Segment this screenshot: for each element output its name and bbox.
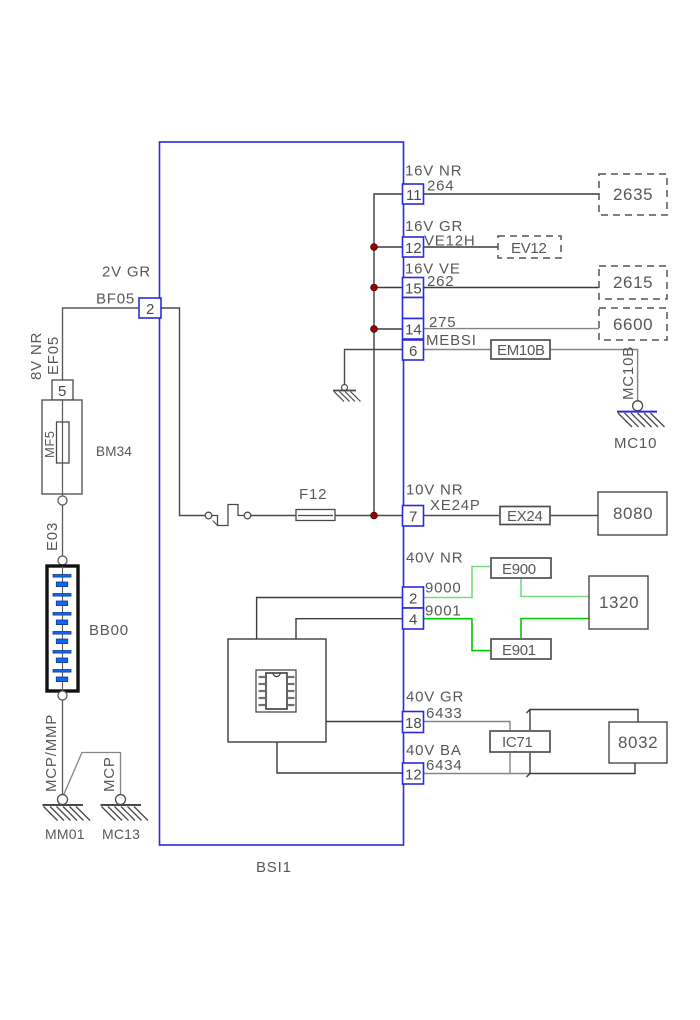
wire U1 to pin 2 — [257, 598, 403, 640]
fuse F12 — [296, 510, 335, 521]
svg-text:MEBSI: MEBSI — [426, 332, 477, 349]
wire U1 to pin 12 lower — [277, 742, 403, 773]
wire pin 6 to internal ground — [345, 350, 404, 385]
svg-text:275: 275 — [429, 314, 456, 331]
svg-text:MC10B: MC10B — [620, 346, 637, 400]
svg-text:264: 264 — [427, 178, 454, 195]
wire BF05 pin2 to BM34 — [63, 308, 140, 380]
ground MC13 — [101, 795, 149, 821]
fuse box BM34 — [42, 400, 82, 496]
svg-text:8032: 8032 — [618, 733, 658, 752]
svg-text:BB00: BB00 — [89, 622, 129, 639]
connector circle below BM34 — [58, 496, 67, 505]
component 8080 — [598, 492, 667, 535]
internal ground symbol — [333, 385, 361, 402]
ground MM01 — [43, 795, 91, 821]
svg-text:9000: 9000 — [425, 580, 462, 597]
pin 11 — [403, 184, 424, 204]
svg-text:2615: 2615 — [613, 273, 653, 292]
connector circle below BB00 — [58, 691, 67, 700]
svg-text:2: 2 — [146, 301, 154, 318]
processor module box U1 — [228, 639, 326, 742]
svg-text:1320: 1320 — [599, 593, 639, 612]
pin 14 — [403, 319, 424, 340]
wire 6434 pin12 lower — [424, 773, 531, 775]
svg-text:2635: 2635 — [613, 185, 653, 204]
svg-text:40V NR: 40V NR — [406, 550, 463, 567]
junction dot node pin15 — [371, 284, 378, 291]
wire switch to fuse F12 — [251, 515, 296, 517]
svg-text:5: 5 — [58, 383, 66, 400]
svg-text:E03: E03 — [44, 522, 61, 551]
wire MEBSI pin6 to EM10B and MC10 — [424, 350, 638, 401]
svg-text:10V NR: 10V NR — [406, 482, 463, 499]
wire trunk to pin 12 — [374, 246, 403, 248]
component EV12 dashed — [498, 236, 561, 258]
svg-text:MC13: MC13 — [102, 826, 140, 842]
svg-text:14: 14 — [405, 322, 422, 339]
svg-text:VE12H: VE12H — [424, 233, 476, 250]
svg-text:F12: F12 — [299, 486, 327, 503]
wire U1 to pin 4 — [296, 619, 403, 639]
wire E900 to 1320 — [521, 578, 589, 597]
wire IC71 loop to 8032 — [527, 710, 639, 778]
pin 15 — [403, 278, 424, 298]
battery BB00 — [47, 566, 78, 691]
component 1320 — [589, 576, 648, 629]
ecu BSI1 box — [160, 142, 404, 845]
svg-text:6: 6 — [409, 343, 417, 360]
svg-text:8V NR: 8V NR — [28, 332, 45, 380]
pin 18 — [403, 712, 424, 733]
connector EX24 — [500, 507, 550, 526]
pin 4 right — [403, 608, 424, 629]
pin 2 left — [139, 298, 161, 318]
svg-text:6600: 6600 — [613, 315, 653, 334]
svg-text:2V GR: 2V GR — [102, 264, 151, 281]
wire MCP/MMP to ground — [62, 700, 64, 795]
svg-text:MCP/MMP: MCP/MMP — [43, 714, 60, 792]
connector EM10B — [491, 340, 550, 359]
svg-text:7: 7 — [409, 509, 417, 526]
wire E901 to 1320 — [521, 619, 589, 640]
wire internal trunk vertical — [374, 194, 403, 516]
connector E901 — [491, 639, 551, 659]
svg-text:XE24P: XE24P — [430, 497, 481, 514]
svg-text:MF5: MF5 — [42, 431, 57, 459]
wire 9000 pin2 to E900 — [424, 567, 492, 598]
svg-text:9001: 9001 — [425, 603, 462, 620]
wire 264 pin11 to 2635 — [424, 193, 600, 195]
svg-text:2: 2 — [409, 591, 417, 608]
connector IC71 — [490, 731, 550, 752]
svg-text:EV12: EV12 — [511, 240, 547, 257]
ground MC10 — [617, 401, 665, 427]
pin 12 lower — [403, 763, 424, 784]
pin 2 right — [403, 587, 424, 608]
svg-text:E900: E900 — [502, 561, 536, 578]
pin 7 — [403, 506, 424, 527]
connector circle above BB00 — [58, 556, 67, 565]
wire VE12H pin12 to EV12 — [424, 246, 499, 248]
svg-text:MCP: MCP — [101, 756, 118, 792]
ground strap MM01 to MC13 — [64, 753, 121, 795]
svg-text:12: 12 — [405, 767, 422, 784]
junction dot node pin14 — [371, 326, 378, 333]
svg-text:12: 12 — [405, 240, 422, 257]
svg-text:18: 18 — [405, 715, 422, 732]
wire internal from pin 2 to switch — [161, 308, 205, 516]
svg-text:EF05: EF05 — [45, 336, 62, 375]
svg-text:BSI1: BSI1 — [256, 859, 292, 876]
wire U1 to pin 18 — [326, 721, 403, 723]
pin empty — [403, 298, 424, 319]
wire 6433 pin18 — [424, 722, 511, 774]
wire fuse to pin 7 — [335, 515, 403, 517]
svg-text:6434: 6434 — [426, 757, 463, 774]
svg-text:4: 4 — [409, 612, 417, 629]
svg-text:MC10: MC10 — [614, 435, 657, 452]
wire E03 — [62, 505, 64, 556]
wire 9001 pin4 to E901 — [424, 619, 492, 651]
svg-text:8080: 8080 — [613, 504, 653, 523]
svg-text:MM01: MM01 — [45, 826, 85, 842]
wire 275 pin14 to 6600 — [424, 328, 600, 330]
svg-text:6433: 6433 — [426, 705, 463, 722]
svg-text:E901: E901 — [502, 642, 536, 659]
connector E900 — [491, 558, 551, 578]
component 2615 dashed — [599, 266, 667, 299]
component 2635 dashed — [599, 174, 667, 215]
switch contact internal — [205, 505, 251, 526]
svg-text:EX24: EX24 — [507, 508, 543, 525]
svg-text:EM10B: EM10B — [497, 342, 545, 359]
pin 12 — [403, 237, 424, 257]
svg-text:15: 15 — [405, 281, 422, 298]
component 6600 dashed — [599, 308, 667, 340]
svg-text:BM34: BM34 — [96, 444, 132, 459]
pin 6 — [403, 340, 424, 360]
wire XE24P pin7 to EX24 and 8080 — [424, 515, 599, 517]
wire 262 pin15 to 2615 — [424, 287, 600, 289]
junction dot node pin7 — [371, 512, 378, 519]
wire trunk to pin 14 — [374, 328, 403, 330]
svg-text:IC71: IC71 — [502, 734, 533, 751]
svg-text:262: 262 — [427, 273, 454, 290]
svg-text:40V GR: 40V GR — [406, 689, 464, 706]
ic chip symbol inside U1 — [256, 670, 296, 712]
pin 5 of BM34 — [52, 380, 73, 400]
component 8032 — [609, 722, 667, 763]
svg-text:11: 11 — [406, 187, 422, 204]
junction dot node pin12 — [371, 244, 378, 251]
wire trunk to pin 15 — [374, 287, 403, 289]
svg-text:BF05: BF05 — [96, 291, 135, 308]
